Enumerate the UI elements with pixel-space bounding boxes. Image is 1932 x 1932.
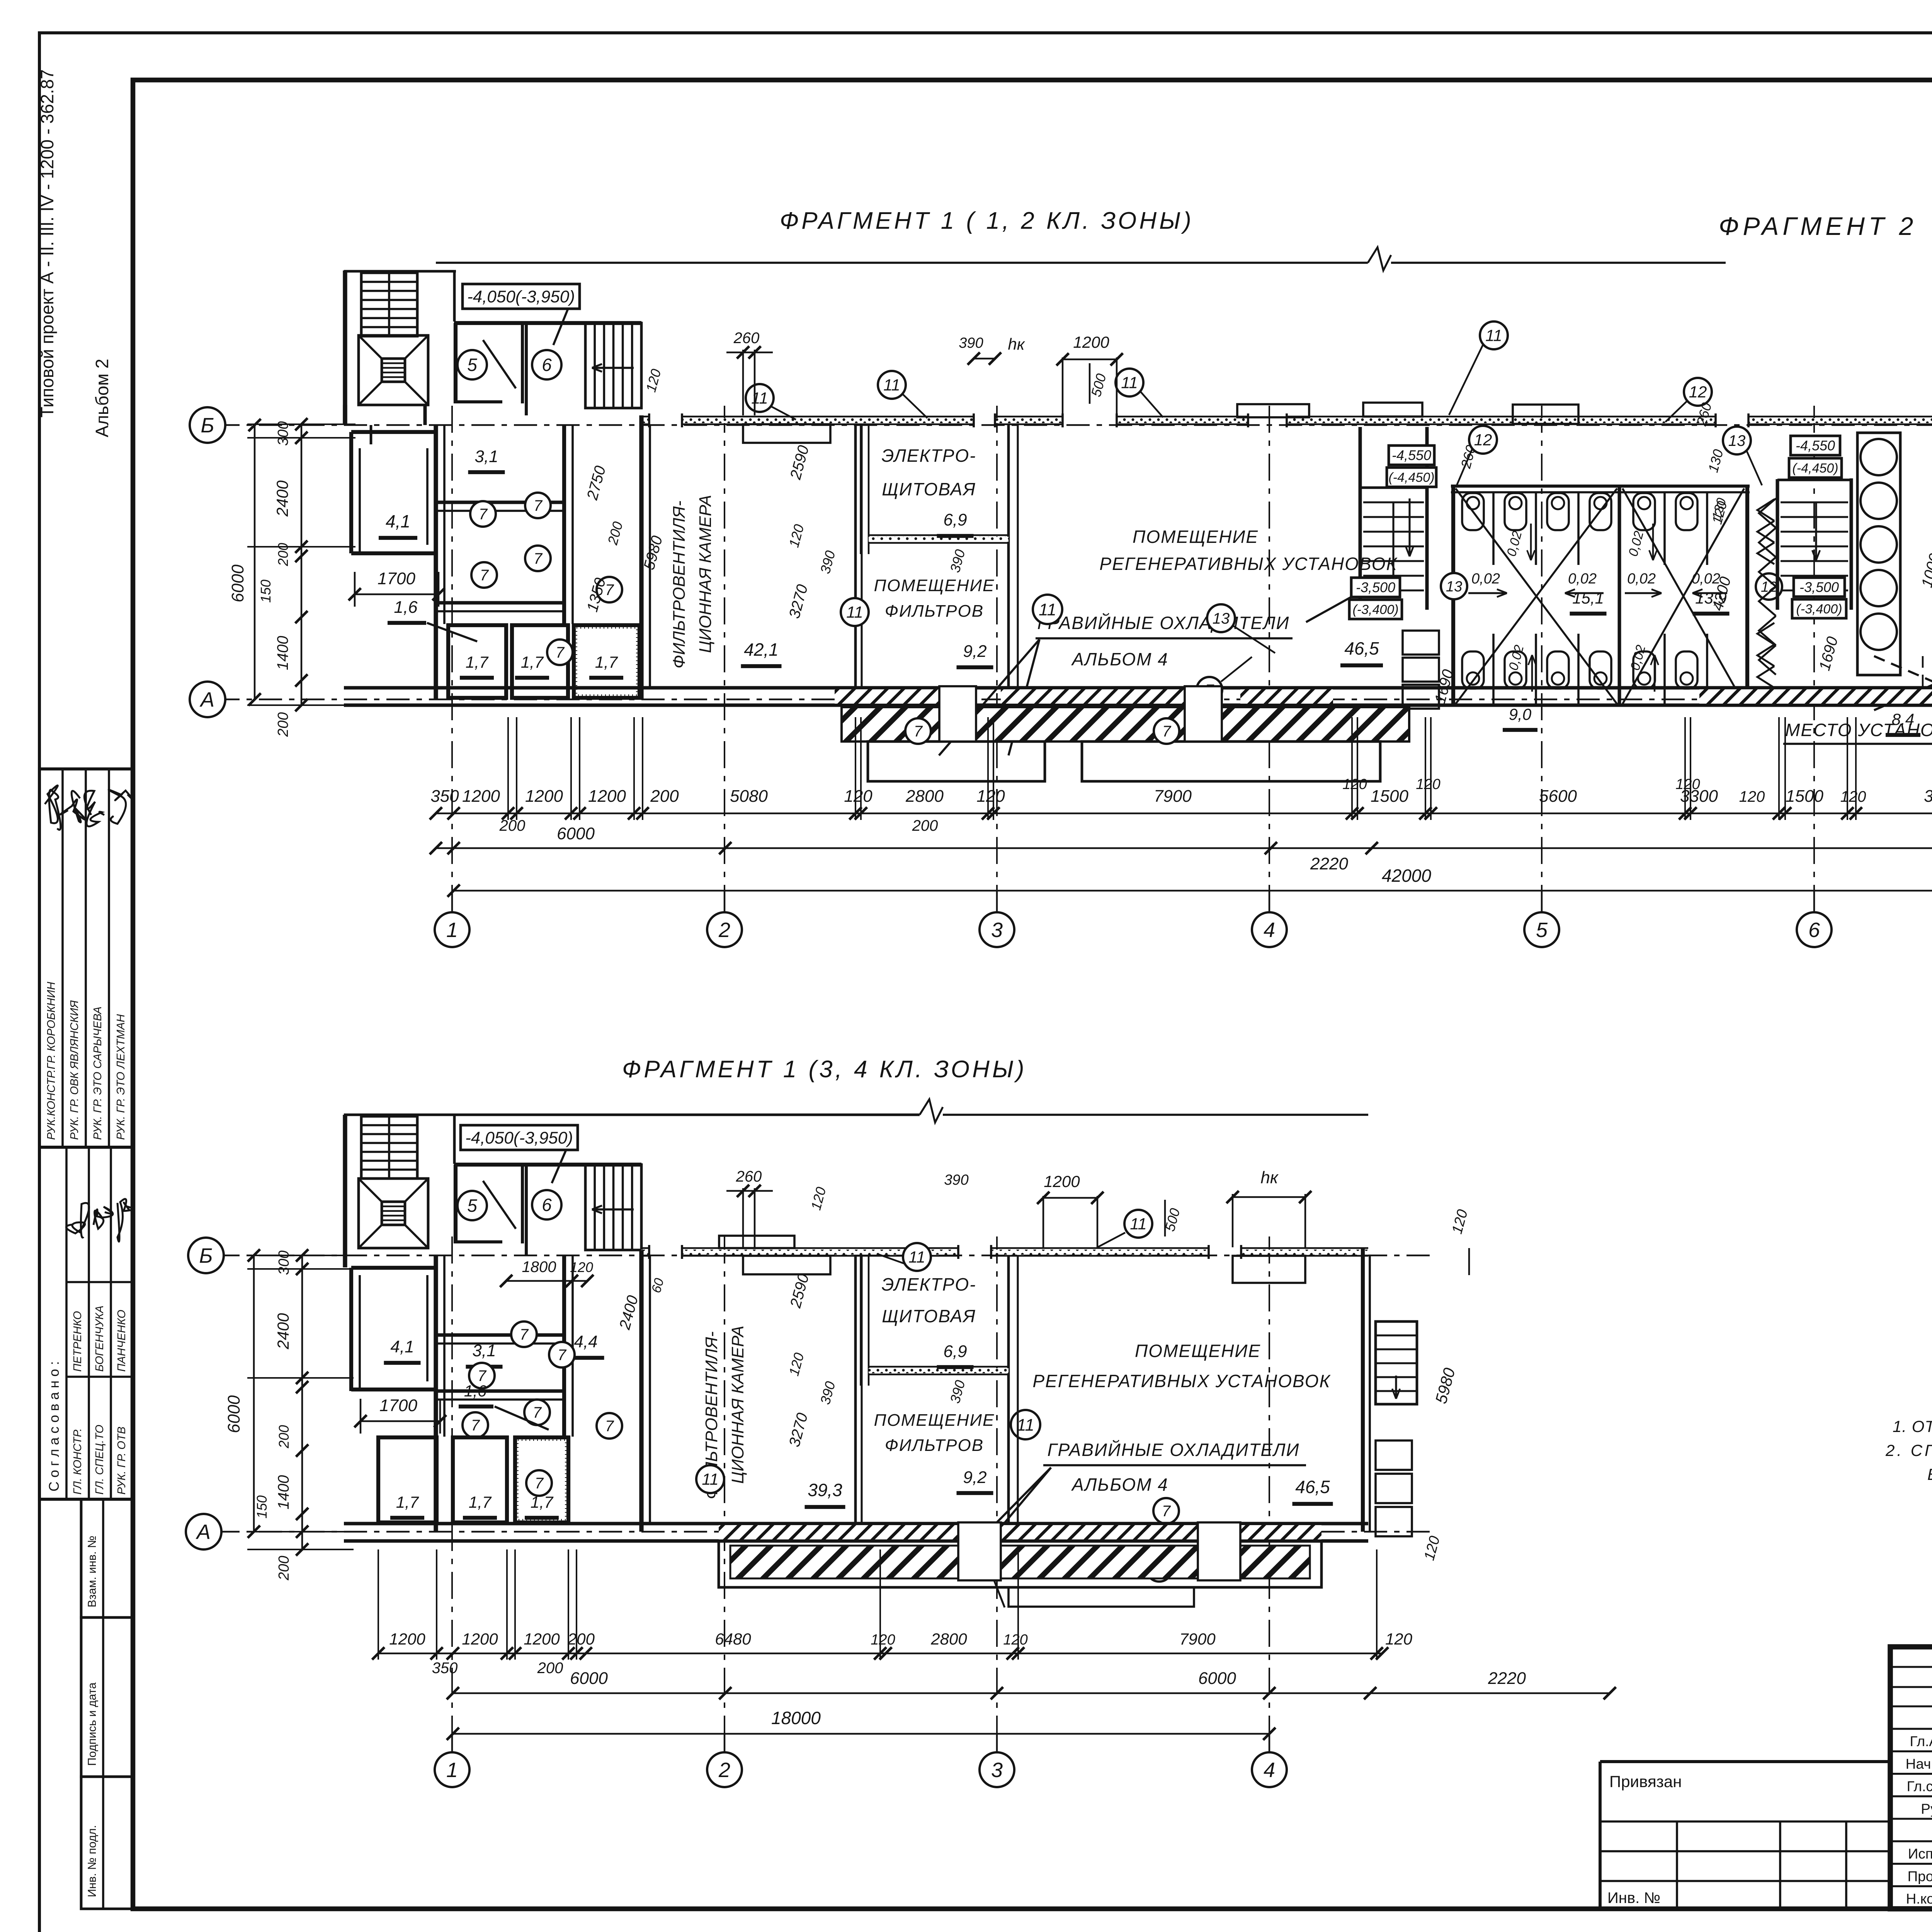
- svg-text:А: А: [196, 1520, 211, 1544]
- axis Б circle (bottom plan): [188, 1238, 224, 1273]
- room label filter-ventilation chamber (rotated): [670, 495, 715, 668]
- svg-text:2220: 2220: [1488, 1669, 1526, 1688]
- svg-text:3: 3: [991, 918, 1003, 942]
- svg-text:1,6: 1,6: [464, 1382, 487, 1400]
- area label 8,4: [1886, 710, 1920, 735]
- svg-text:ФРАГМЕНТ 1 ( 1, 2 КЛ. ЗОНЫ): ФРАГМЕНТ 1 ( 1, 2 КЛ. ЗОНЫ): [780, 207, 1194, 234]
- svg-text:1,6: 1,6: [394, 598, 418, 617]
- svg-text:5080: 5080: [730, 787, 768, 806]
- tank row 1 (regenerative cartridges): [1857, 433, 1900, 675]
- svg-text:42000: 42000: [1382, 866, 1431, 886]
- svg-text:Провер.: Провер.: [1908, 1868, 1932, 1884]
- svg-text:7: 7: [534, 497, 543, 514]
- room area label 4,1: [379, 511, 417, 538]
- ventilation shaft pyramid (top plan): [359, 335, 428, 405]
- sanitary block side walls: [1453, 486, 1747, 706]
- svg-text:-4,050(-3,950): -4,050(-3,950): [467, 287, 575, 306]
- svg-text:1200: 1200: [525, 787, 563, 806]
- dim 1700 inside plan: [349, 569, 445, 607]
- room number circle 5 (top plan): [457, 350, 487, 379]
- equipment boxes east (bottom plan): [1376, 1440, 1412, 1536]
- svg-text:350: 350: [430, 787, 459, 806]
- svg-text:ВОРОТ И ДВЕРЕЙ НА ЛИСТЕ 2.: ВОРОТ И ДВЕРЕЙ НА ЛИСТЕ 2.: [1927, 1465, 1932, 1483]
- svg-text:200: 200: [567, 1630, 595, 1648]
- svg-text:1400: 1400: [274, 636, 291, 670]
- svg-text:7: 7: [534, 550, 543, 567]
- svg-text:120: 120: [844, 787, 872, 806]
- svg-text:(-4,450): (-4,450): [1792, 461, 1838, 476]
- sanitary block top wall: [1451, 486, 1750, 492]
- margin vertical text: album 2: [92, 359, 112, 437]
- svg-text:ЭЛЕКТРО-: ЭЛЕКТРО-: [881, 446, 976, 466]
- room 5 walls (top plan): [454, 323, 641, 403]
- svg-text:2: 2: [718, 918, 730, 942]
- svg-text:11: 11: [1130, 1215, 1147, 1233]
- equipment boxes beside stair: [1403, 631, 1439, 709]
- dashed fan location cross: [1874, 656, 1932, 710]
- svg-text:42,1: 42,1: [744, 639, 779, 660]
- circle 13 (fragment1): [1207, 604, 1275, 653]
- svg-text:3: 3: [991, 1759, 1003, 1782]
- witness lines row1 (bottom plan): [378, 1549, 1377, 1660]
- svg-text:46,5: 46,5: [1344, 638, 1379, 658]
- room number circle 5 (bottom plan): [457, 1191, 487, 1220]
- circle 7 bottom of regeneration room: [1197, 657, 1252, 702]
- svg-text:120: 120: [1840, 788, 1866, 805]
- svg-text:РУК. ГР. ЭТО ЛЕХТМАН: РУК. ГР. ЭТО ЛЕХТМАН: [115, 1014, 127, 1140]
- svg-text:Гл.спец.: Гл.спец.: [1907, 1779, 1932, 1794]
- area label 9,2: [957, 642, 993, 667]
- svg-text:2. СПЕЦИФИКАЦИЯ ЗАПОЛНЕНИЯ П: 2. СПЕЦИФИКАЦИЯ ЗАПОЛНЕНИЯ ПРОЕМОВ И ВЕД…: [1885, 1441, 1932, 1459]
- svg-text:РЕГЕНЕРАТИВНЫХ УСТАНОВОК: РЕГЕНЕРАТИВНЫХ УСТАНОВОК: [1099, 554, 1398, 574]
- svg-text:6000: 6000: [228, 565, 247, 602]
- area label 46,5: [1340, 638, 1383, 665]
- porch below bottom plan (hatched): [719, 1522, 1321, 1607]
- svg-text:9,2: 9,2: [963, 642, 986, 661]
- small rooms 1,7 row (bottom plan): [378, 1437, 568, 1522]
- svg-text:(-4,450): (-4,450): [1388, 470, 1434, 485]
- dimension chain row 1 (top plan): [430, 807, 1932, 820]
- north-west stair block walls (bottom plan): [345, 1115, 454, 1267]
- svg-text:1200: 1200: [462, 1630, 498, 1648]
- svg-text:11: 11: [846, 603, 863, 621]
- svg-text:11: 11: [908, 1248, 925, 1266]
- svg-text:6480: 6480: [715, 1630, 751, 1648]
- svg-text:ПАНЧЕНКО: ПАНЧЕНКО: [116, 1310, 128, 1372]
- svg-text:6000: 6000: [1198, 1669, 1236, 1688]
- stair flight right of room 6 (bottom plan): [585, 1165, 641, 1250]
- circle 7 markers porch: [905, 718, 931, 744]
- axis А line (bottom plan): [216, 1531, 1430, 1533]
- svg-text:5: 5: [467, 355, 477, 375]
- svg-text:5600: 5600: [1539, 787, 1577, 806]
- margin approval table (Soglasovano): [39, 1147, 133, 1499]
- svg-text:ЩИТОВАЯ: ЩИТОВАЯ: [882, 1306, 976, 1326]
- svg-text:150: 150: [254, 1495, 270, 1519]
- svg-text:Б: Б: [199, 1244, 213, 1267]
- svg-text:7: 7: [556, 644, 565, 661]
- svg-text:ФИЛЬТРОВЕНТИЛЯ-: ФИЛЬТРОВЕНТИЛЯ-: [670, 501, 689, 668]
- svg-text:Альбом 2: Альбом 2: [92, 359, 112, 437]
- notes text: [1885, 1417, 1932, 1483]
- svg-text:1,7: 1,7: [469, 1493, 492, 1511]
- svg-text:120: 120: [1675, 776, 1700, 793]
- dimension chain row 2 (bottom plan): [447, 1687, 1616, 1699]
- svg-text:120: 120: [1739, 788, 1765, 805]
- left vertical dim chain (bottom plan): [224, 1249, 354, 1581]
- svg-text:7: 7: [914, 723, 923, 740]
- stair treads fragment1 east: [1363, 498, 1424, 590]
- area labels 15,1 and 13,9: [1570, 589, 1730, 614]
- svg-text:ГРАВИЙНЫЕ ОХЛАДИТЕЛИ: ГРАВИЙНЫЕ ОХЛАДИТЕЛИ: [1037, 612, 1290, 633]
- circle 11 above wall with leader: [1116, 369, 1163, 417]
- svg-text:120: 120: [976, 787, 1005, 806]
- porch below fragment1 (hatched): [842, 686, 1409, 781]
- labels electro rooms (bottom plan): [874, 1274, 995, 1493]
- svg-text:Н.контр.: Н.контр.: [1906, 1891, 1932, 1907]
- title: fragment 2: [1719, 212, 1917, 240]
- top boundary line with break (bottom plan): [344, 1099, 1368, 1122]
- room 5 walls (bottom plan): [454, 1165, 641, 1243]
- room number circle 6 (bottom plan): [532, 1190, 561, 1219]
- label 1,6 (bottom plan): [459, 1382, 549, 1430]
- svg-text:200: 200: [276, 1556, 292, 1580]
- svg-text:1,7: 1,7: [521, 653, 544, 671]
- level boxes fragment2 -3,500: [1792, 578, 1846, 618]
- svg-text:hк: hк: [1008, 335, 1025, 353]
- svg-text:200: 200: [912, 817, 938, 834]
- svg-text:Гл.АРХ.: Гл.АРХ.: [1910, 1733, 1932, 1749]
- circle 11 above wall right with leader: [1449, 321, 1508, 415]
- svg-text:11: 11: [1039, 600, 1056, 619]
- svg-text:Исполн.: Исполн.: [1908, 1846, 1932, 1862]
- circle 11 in regeneration room: [1033, 595, 1062, 624]
- circle 13 above sanitary right: [1723, 427, 1762, 485]
- svg-text:ЦИОННАЯ КАМЕРА: ЦИОННАЯ КАМЕРА: [728, 1326, 747, 1484]
- slope cross lines (sanitary block): [1456, 488, 1744, 704]
- area label 6,9: [937, 510, 974, 536]
- axis Б line (bottom plan): [216, 1255, 1430, 1257]
- svg-text:200: 200: [499, 817, 526, 834]
- svg-text:ПОМЕЩЕНИЕ: ПОМЕЩЕНИЕ: [1135, 1341, 1261, 1361]
- margin box Vzam inv no: [81, 1499, 133, 1617]
- room 6 wall (top plan): [525, 323, 528, 415]
- axis circles 1-4 (bottom plan): [435, 1734, 469, 1787]
- dimension labels row 2 (top plan): [557, 824, 1932, 873]
- svg-text:МЕСТО УСТАНОВКИ ВЫТЯЖНОГО ВЕ: МЕСТО УСТАНОВКИ ВЫТЯЖНОГО ВЕНТИЛЯТОРА: [1785, 720, 1932, 740]
- svg-text:-4,550: -4,550: [1796, 438, 1835, 454]
- dimension labels row 2 (bottom plan): [570, 1669, 1526, 1688]
- outside stair east (bottom plan): [1376, 1321, 1417, 1404]
- svg-text:hк: hк: [1260, 1168, 1279, 1187]
- svg-text:РУК. ГР. ОВК ЯВЛЯНСКИЯ: РУК. ГР. ОВК ЯВЛЯНСКИЯ: [68, 1000, 81, 1140]
- svg-text:ГРАВИЙНЫЕ ОХЛАДИТЕЛИ: ГРАВИЙНЫЕ ОХЛАДИТЕЛИ: [1048, 1439, 1300, 1460]
- svg-text:1200: 1200: [1073, 333, 1109, 351]
- insulated north wall of strip (bottom plan): [641, 1248, 1368, 1256]
- level mark box -4,050(-3,950) (bottom plan): [461, 1125, 578, 1183]
- door jambs in north wall openings: [649, 413, 1932, 427]
- electro rooms (bottom plan): [861, 1256, 1018, 1532]
- svg-text:120: 120: [1003, 1632, 1027, 1648]
- svg-text:2: 2: [718, 1759, 730, 1782]
- svg-text:БОГЕНЧУКА: БОГЕНЧУКА: [94, 1306, 106, 1372]
- title block: attachment table left: [1600, 1762, 1890, 1909]
- svg-text:7: 7: [479, 506, 488, 523]
- svg-text:3,1: 3,1: [472, 1341, 496, 1360]
- insulated north wall of main strip (top plan): [641, 417, 1932, 424]
- svg-text:18000: 18000: [771, 1708, 821, 1728]
- level boxes -4,550 / (-4,450): [1387, 446, 1436, 487]
- circle 12 top (fragment2 left): [1665, 378, 1712, 422]
- svg-text:11: 11: [883, 376, 900, 394]
- dims 1800 120 (bottom plan): [500, 1259, 667, 1332]
- svg-text:9,0: 9,0: [1509, 705, 1532, 723]
- svg-text:5: 5: [1536, 918, 1548, 942]
- dims above north wall near hk opening: [726, 330, 1123, 415]
- svg-text:150: 150: [258, 580, 274, 603]
- rotated dims right of chamber (bottom plan): [786, 1272, 812, 1449]
- svg-text:ЭЛЕКТРО-: ЭЛЕКТРО-: [881, 1274, 976, 1294]
- stair block fragment2 walls: [1777, 478, 1851, 610]
- svg-text:1400: 1400: [275, 1475, 292, 1510]
- svg-text:6: 6: [542, 1195, 552, 1215]
- svg-text:200: 200: [275, 712, 291, 737]
- north-west stair block walls: [344, 270, 456, 425]
- svg-text:-4,550: -4,550: [1392, 447, 1431, 463]
- svg-text:46,5: 46,5: [1295, 1477, 1330, 1497]
- west rooms cluster walls (top plan): [351, 415, 650, 699]
- svg-text:Нач.отд.: Нач.отд.: [1906, 1756, 1932, 1772]
- svg-text:120: 120: [1385, 1630, 1413, 1648]
- svg-text:11: 11: [1121, 374, 1138, 392]
- axis А circle (bottom plan): [186, 1514, 221, 1549]
- rotated dims inside west cluster: [583, 367, 666, 614]
- axis А circle (top plan): [190, 682, 225, 717]
- svg-text:390: 390: [944, 1172, 968, 1188]
- svg-text:А: А: [199, 688, 214, 711]
- labels 1,7: [460, 653, 494, 678]
- svg-text:0,02: 0,02: [1627, 571, 1656, 587]
- vestibule box above wall (bottom plan): [719, 1236, 794, 1248]
- rotated dim 1690 (fragment1 stair): [1432, 668, 1457, 705]
- south exterior wall (top plan): [344, 688, 1932, 705]
- svg-text:4,1: 4,1: [386, 511, 410, 531]
- svg-text:200: 200: [650, 787, 679, 806]
- dim 1700 (bottom plan): [354, 1396, 446, 1434]
- svg-text:12: 12: [1474, 431, 1492, 449]
- svg-text:7: 7: [605, 1418, 614, 1435]
- title block: main stamp frame: [1890, 1647, 1932, 1909]
- svg-text:120: 120: [1416, 776, 1440, 793]
- svg-text:Типовой проект А - II. III.: Типовой проект А - II. III. IV - 1200 - …: [37, 69, 57, 417]
- labels 1,7 (bottom plan): [390, 1493, 424, 1518]
- area label 46,5 (bottom plan): [1293, 1477, 1333, 1504]
- svg-text:С о г л а с о в а н о :: С о г л а с о в а н о :: [46, 1361, 62, 1492]
- svg-text:3,1: 3,1: [474, 447, 498, 466]
- svg-text:13: 13: [1213, 610, 1230, 627]
- svg-text:1200: 1200: [462, 787, 500, 806]
- toilet fixtures top row: [1462, 493, 1697, 530]
- regeneration units room labels: [1099, 527, 1398, 574]
- svg-text:АЛЬБОМ 4: АЛЬБОМ 4: [1071, 649, 1168, 669]
- circle 12* at saw-tooth strip: [1756, 573, 1782, 600]
- room label electro-shchitovaya: [881, 446, 976, 499]
- saw-tooth marks between sanitary and stair: [1757, 499, 1774, 688]
- svg-text:6: 6: [542, 355, 552, 375]
- svg-text:-4,050(-3,950): -4,050(-3,950): [465, 1128, 573, 1147]
- svg-text:ФИЛЬТРОВ: ФИЛЬТРОВ: [885, 1436, 984, 1455]
- svg-text:7: 7: [480, 567, 489, 584]
- vestibule recess below wall (bottom plan): [743, 1256, 830, 1274]
- margin box Podpis i data: [81, 1617, 133, 1777]
- svg-text:РУК.КОНСТР.ГР. КОРОБКНИН: РУК.КОНСТР.ГР. КОРОБКНИН: [45, 982, 58, 1140]
- dimension labels row 1 (bottom plan): [389, 1630, 1412, 1677]
- vestibule boxes protruding above north wall: [1237, 403, 1932, 417]
- circle 13* on sanitary west wall: [1441, 573, 1467, 599]
- svg-text:ФРАГМЕНТ 2: ФРАГМЕНТ 2: [1719, 212, 1917, 240]
- dimension chain row 2 (top plan): [430, 842, 1932, 854]
- wall below vent shaft: [345, 405, 425, 444]
- svg-text:РУК. ГР. ОТВ: РУК. ГР. ОТВ: [116, 1427, 128, 1495]
- room area label 1,6 with leader: [388, 598, 477, 641]
- svg-text:ПОМЕЩЕНИЕ: ПОМЕЩЕНИЕ: [874, 576, 995, 595]
- svg-text:6,9: 6,9: [943, 510, 967, 529]
- svg-text:6: 6: [1808, 918, 1820, 942]
- svg-text:1500: 1500: [1786, 787, 1823, 806]
- svg-text:(-3,400): (-3,400): [1796, 602, 1842, 616]
- svg-text:7: 7: [471, 1417, 480, 1434]
- svg-text:4: 4: [1264, 1759, 1275, 1782]
- witness lines row 1 (top plan): [508, 717, 1932, 820]
- title: fragment 1 (3,4 class zones): [622, 1056, 1027, 1083]
- svg-text:7: 7: [558, 1347, 567, 1364]
- door circles 7 in west cluster: [470, 501, 496, 527]
- circle 7 south wall (bottom plan): [1153, 1498, 1179, 1524]
- svg-text:2220: 2220: [1310, 854, 1348, 873]
- area label 39,3: [805, 1480, 845, 1507]
- vestibule box on north wall above sanitary: [1513, 405, 1578, 424]
- svg-text:1700: 1700: [379, 1396, 417, 1415]
- ventilation shaft pyramid (bottom plan): [359, 1179, 428, 1248]
- east wall and stair (bottom plan): [1363, 1248, 1370, 1532]
- svg-text:1200: 1200: [389, 1630, 425, 1648]
- svg-text:7: 7: [520, 1326, 529, 1343]
- toilet fixtures bottom row: [1462, 651, 1697, 689]
- svg-text:9,2: 9,2: [963, 1468, 986, 1487]
- column axis extension lines (bottom plan): [452, 1236, 1269, 1754]
- column axis extension lines (top plan): [452, 406, 1932, 920]
- svg-text:260: 260: [736, 1168, 762, 1185]
- svg-text:200: 200: [537, 1660, 563, 1677]
- circle 7 above third room (bottom plan): [526, 1470, 552, 1496]
- svg-text:200: 200: [276, 1425, 292, 1449]
- svg-text:4: 4: [1264, 918, 1275, 942]
- stair flight right of room 6 (top plan): [585, 323, 641, 408]
- svg-text:260: 260: [733, 330, 760, 347]
- svg-text:1,7: 1,7: [396, 1493, 419, 1511]
- svg-text:ФРАГМЕНТ 1 (3, 4 КЛ. ЗОНЫ): ФРАГМЕНТ 1 (3, 4 КЛ. ЗОНЫ): [622, 1056, 1027, 1083]
- svg-text:ФИЛЬТРОВ: ФИЛЬТРОВ: [885, 602, 984, 621]
- svg-text:15,1: 15,1: [1572, 589, 1604, 607]
- svg-text:Рук.гр: Рук.гр: [1921, 1801, 1932, 1817]
- room 6 wall (bottom plan): [525, 1165, 528, 1256]
- svg-text:4,1: 4,1: [390, 1337, 414, 1356]
- svg-text:120: 120: [570, 1259, 593, 1275]
- svg-text:1: 1: [446, 1759, 458, 1782]
- svg-text:1800: 1800: [522, 1259, 556, 1276]
- svg-text:1200: 1200: [524, 1630, 560, 1648]
- rotated dims east (bottom plan): [1421, 1208, 1471, 1562]
- gravel coolers note (bottom plan): [966, 1439, 1306, 1607]
- south exterior wall (bottom plan): [344, 1524, 1368, 1541]
- stair block fragment1 east (walls): [1360, 427, 1427, 610]
- title block: signature grid: [1890, 1647, 1932, 1909]
- svg-text:4,4: 4,4: [574, 1332, 597, 1351]
- level boxes fragment2 -4,550: [1789, 436, 1842, 478]
- dimension chain row 3 (bottom plan): [447, 1708, 1276, 1740]
- title: fragment 1 (1,2 class zones): [780, 207, 1194, 234]
- svg-text:ГЛ. КОНСТР.: ГЛ. КОНСТР.: [71, 1428, 84, 1495]
- door jambs north wall (bottom plan): [649, 1245, 1241, 1259]
- rotated dims fragment2 stair: [1693, 401, 1841, 672]
- svg-text:7: 7: [1162, 723, 1172, 740]
- dimension chain row 1 (bottom plan): [372, 1647, 1388, 1660]
- svg-text:120: 120: [1342, 776, 1367, 793]
- svg-text:6000: 6000: [224, 1395, 243, 1433]
- room label filter-ventilation chamber (bottom plan): [702, 1326, 747, 1499]
- svg-text:АЛЬБОМ 4: АЛЬБОМ 4: [1071, 1475, 1168, 1495]
- svg-text:-3,500: -3,500: [1799, 579, 1839, 595]
- svg-text:39,3: 39,3: [808, 1480, 842, 1500]
- svg-text:7: 7: [533, 1404, 542, 1421]
- rotated dims sanitary block: [1458, 443, 1734, 612]
- small rooms 1,7 row (top plan): [448, 625, 639, 698]
- west rooms cluster walls (bottom plan): [351, 1250, 650, 1532]
- svg-text:РУК. ГР. ЭТО САРЫЧЕВА: РУК. ГР. ЭТО САРЫЧЕВА: [92, 1007, 104, 1140]
- level boxes -3,500 / (-3,400): [1306, 578, 1402, 622]
- area label 42,1: [741, 639, 782, 666]
- note: fan installation place: [1783, 691, 1932, 744]
- circle 12 above sanitary left: [1457, 426, 1497, 485]
- room area label 3,1: [468, 447, 505, 472]
- stairwell flight NW (bottom plan): [361, 1116, 417, 1179]
- axis Б circle (top plan): [190, 407, 225, 443]
- svg-text:11: 11: [751, 389, 768, 407]
- svg-text:12: 12: [1689, 383, 1707, 401]
- svg-text:5: 5: [467, 1196, 477, 1216]
- svg-text:13: 13: [1446, 578, 1462, 595]
- svg-text:ПЕТРЕНКО: ПЕТРЕНКО: [71, 1311, 84, 1372]
- svg-text:2800: 2800: [905, 787, 944, 806]
- dims 390 (bottom plan): [817, 1378, 968, 1406]
- svg-text:2800: 2800: [930, 1630, 967, 1648]
- svg-text:7: 7: [1162, 1503, 1171, 1520]
- svg-text:ПОМЕЩЕНИЕ: ПОМЕЩЕНИЕ: [874, 1411, 995, 1430]
- svg-text:11: 11: [1485, 327, 1502, 345]
- area label 9,0: [1503, 705, 1537, 730]
- dimension chain row 3 overall 42000: [447, 866, 1932, 897]
- svg-text:1200: 1200: [1044, 1172, 1080, 1190]
- level mark box -4,050(-3,950) (top plan): [463, 284, 580, 345]
- svg-text:1500: 1500: [1371, 787, 1408, 806]
- svg-text:0,02: 0,02: [1471, 571, 1500, 587]
- axis circles 1-8 (top plan): [435, 891, 469, 947]
- hk recess below wall (bottom plan): [1233, 1256, 1305, 1283]
- axis А line (top plan): [216, 699, 1932, 701]
- filter chamber east wall (bottom plan): [855, 1256, 862, 1532]
- sanitary stall partitions top row: [1493, 492, 1707, 565]
- svg-text:7900: 7900: [1154, 787, 1192, 806]
